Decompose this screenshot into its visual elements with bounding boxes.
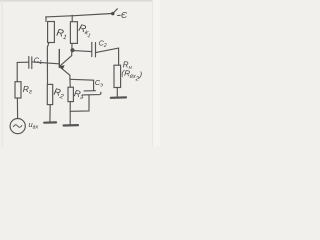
wire: output to load [96,48,118,65]
emitter stroke [60,67,70,79]
paper background [0,0,160,147]
resistor R2 (lower bias) [47,63,65,122]
capacitor C2 [74,39,107,57]
resistor Rg (source resistance) [15,62,32,118]
source u_vx (AC generator) [10,119,38,134]
ground (Re) [64,124,78,127]
label -E [118,10,128,20]
wire: top supply rail [46,14,112,17]
transistor VT1 (PNP) [32,49,71,78]
capacitor C1 [17,56,42,69]
base wire [32,62,59,64]
svg-text:Є: Є [121,10,128,20]
base bar [58,49,60,67]
collector stroke [60,56,72,67]
resistor Re (emitter) [68,79,85,125]
emitter arrow (PNP, pointing into bar) [60,65,65,70]
resistor R1 [46,17,68,63]
resistor Rn (load) [114,61,143,97]
node: collector junction knot [70,48,74,52]
terminal -E (dot with tick) [111,9,117,16]
capacitor Ce (emitter bypass) [70,78,103,112]
ground (load) [111,96,126,99]
ground (R2) [44,121,56,123]
resistor Rk1 [70,15,93,55]
